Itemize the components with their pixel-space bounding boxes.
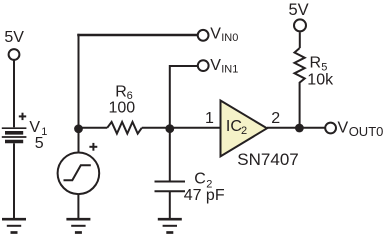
capacitor C2 [155, 182, 186, 192]
svg-text:IN0: IN0 [221, 32, 238, 44]
svg-text:OUT0: OUT0 [349, 124, 384, 139]
label 5V (right supply) [289, 1, 309, 19]
label V1 [29, 119, 47, 138]
svg-text:100: 100 [109, 100, 136, 117]
battery V1 [2, 128, 27, 141]
wire 5V terminal to R5 [299, 32, 301, 48]
svg-text:V: V [29, 119, 40, 136]
svg-text:5: 5 [35, 135, 44, 152]
label VIN1 [210, 57, 238, 76]
pulse source waveform [64, 165, 91, 180]
svg-text:5V: 5V [4, 29, 24, 46]
pin 2 label [271, 110, 280, 127]
svg-text:V: V [338, 119, 349, 136]
ground (battery) [2, 219, 26, 232]
terminal 5V right [294, 19, 306, 31]
value 100 [109, 100, 136, 117]
wire R6 to node B [142, 127, 170, 129]
terminal VOUT0 [325, 123, 336, 134]
svg-text:R: R [310, 55, 322, 72]
wire node A to pulse source [78, 129, 80, 153]
label IC2 [226, 118, 247, 137]
svg-text:2: 2 [271, 110, 280, 127]
pulse source plus sign [89, 143, 97, 151]
value 47 pF [184, 187, 225, 204]
svg-text:IC: IC [226, 118, 242, 135]
node B junction dot [165, 124, 174, 133]
wire battery to ground [13, 143, 15, 218]
svg-text:C: C [194, 171, 206, 188]
svg-text:SN7407: SN7407 [237, 150, 298, 169]
label VIN0 [210, 26, 238, 45]
svg-text:2: 2 [241, 125, 247, 137]
buffer IC2 (SN7407) [221, 101, 268, 157]
svg-text:5V: 5V [289, 1, 309, 19]
terminal 5V left [9, 49, 20, 60]
wire node B to IC2 input [170, 127, 220, 129]
wire node B up to VIN1 [170, 66, 198, 128]
terminal VIN0 [198, 30, 209, 41]
svg-text:V: V [210, 26, 221, 43]
node C junction dot [295, 124, 304, 133]
pin 1 label [205, 110, 214, 127]
value 5 [35, 135, 44, 152]
svg-text:1: 1 [205, 110, 214, 127]
wire 5V terminal to battery V1 [13, 60, 15, 127]
label R5 [310, 55, 328, 74]
ground (C2) [158, 219, 182, 232]
pulse source V1 waveform circle [58, 153, 100, 195]
terminal VIN1 [198, 60, 209, 71]
label 5V (left supply) [4, 29, 24, 46]
node A junction dot [74, 124, 83, 133]
label SN7407 [237, 150, 298, 169]
wire node A to R6 [79, 127, 108, 129]
label R6 [115, 83, 132, 102]
svg-text:IN1: IN1 [221, 64, 238, 76]
wire R5 to node C [299, 87, 301, 129]
wire pulse source to ground [77, 194, 79, 218]
wire node B to capacitor C2 [169, 129, 171, 181]
resistor R5 [295, 48, 305, 86]
svg-text:10k: 10k [307, 72, 334, 89]
svg-text:47 pF: 47 pF [184, 187, 225, 204]
value 10k [307, 72, 334, 89]
svg-text:R: R [115, 83, 127, 100]
ground (pulse source) [66, 219, 90, 232]
wire top to VIN0 [77, 34, 197, 37]
resistor R6 [107, 122, 142, 134]
battery V1 plus sign [19, 113, 26, 120]
wire C2 to ground [169, 191, 171, 218]
svg-text:V: V [210, 57, 221, 74]
wire IC2 output to VOUT0 [267, 127, 325, 129]
label VOUT0 [338, 119, 384, 139]
label C2 [194, 171, 212, 191]
wire node A up [78, 34, 80, 129]
